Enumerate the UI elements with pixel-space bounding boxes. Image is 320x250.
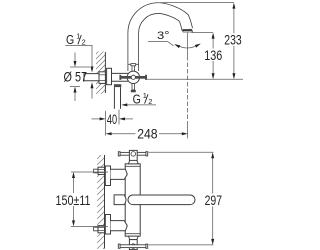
hub inner circle [131,75,135,79]
bottom hex nut (lower view) [98,226,105,233]
bottom handle bar (lower view) [119,245,146,248]
escutcheon flange (top view) [107,68,112,84]
top supply stub (lower view) [94,169,98,173]
svg-text:2: 2 [82,38,86,47]
top handle stem (lower view) [128,160,138,163]
handle vertical spoke (top view) [132,65,135,90]
svg-text:G: G [133,92,141,106]
top escutcheon (lower view) [105,166,110,186]
svg-text:233: 233 [224,32,242,48]
svg-text:2: 2 [148,97,152,106]
G1/2 bottom arrow [121,103,127,106]
svg-text:297: 297 [205,192,223,208]
wall line (lower view) [104,155,106,249]
wall hatching (lower view) [90,148,108,250]
valve body tube (top view) [112,72,129,74]
spout pill (lower view) [128,195,195,205]
dia 57 extension lines [70,66,90,68]
3 deg arc arrows [174,43,181,48]
bottom escutcheon (lower view) [105,215,110,235]
fraction slashes [78,35,148,104]
diverter knob (lower view) [114,195,124,205]
bottom port cap (top view) [114,84,121,87]
dia57 arrows [74,61,77,67]
top hex nut (lower view) [98,167,105,174]
bottom handle stem (lower view) [128,236,138,239]
bottom supply stub (lower view) [94,227,98,231]
spout tube (top view): dark outline then white core [133,8,187,71]
arrowheads [72,3,235,245]
svg-text:G: G [66,33,74,47]
axis baseline [146,78,243,80]
faucet body (lower view) [125,164,140,236]
wall (top view) [88,48,106,112]
3 deg leader + arc [148,42,174,46]
svg-text:Ø 57: Ø 57 [64,69,88,85]
pipe joint line (top view) [128,63,140,65]
248 dimension line [111,133,136,135]
handle hub (top view) [127,71,139,83]
3 deg reference line [187,33,189,56]
supply stub (top view) [84,74,99,81]
top union (lower view) [111,169,128,179]
150+-11 ext + dim [71,171,108,173]
G1/2 bottom leader [123,104,157,106]
136 extension + dim line [192,32,214,34]
vertical spoke bottom cap [131,90,136,92]
svg-text:150±11: 150±11 [56,192,91,208]
136 arrows [212,33,215,39]
top handle bar (lower view) [119,152,146,155]
248 arrows [106,132,112,135]
G1/2 top leader [65,45,92,66]
233 extension + dim line [160,2,234,4]
wall line (top view) [104,52,106,93]
svg-text:136: 136 [204,47,222,63]
40 arrows [100,117,106,120]
top handle hub (lower view) [129,150,137,160]
hex nut (top view) [99,72,105,84]
down pipe G1/2 (top view) [113,87,115,109]
svg-text:40: 40 [107,111,117,127]
bottom handle hub (lower view) [129,240,137,250]
G1/2 top arrows [91,67,94,73]
150 arrows [72,172,75,178]
bottom union (lower view) [111,221,128,231]
spout outlet lip [182,29,192,31]
297 ext + dim [149,151,214,153]
297 arrows [211,152,214,158]
handle horizontal spoke (top view) [120,76,146,79]
svg-text:248: 248 [137,126,158,142]
svg-text:3°: 3° [157,30,170,42]
40 extension lines [105,111,107,136]
233 arrows [232,3,235,9]
